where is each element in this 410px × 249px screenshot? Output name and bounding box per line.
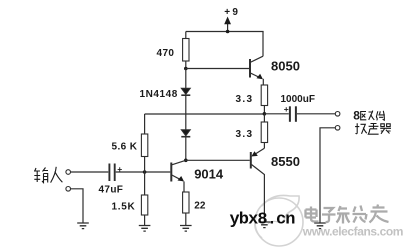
- transistor Q2 9014 (NPN): [171, 160, 186, 192]
- input terminal top: [66, 170, 71, 175]
- wire: node A to Q1 base: [186, 68, 250, 70]
- svg-text:8: 8: [353, 108, 360, 122]
- label 8欧姆 (8 ohm): [353, 108, 385, 122]
- output terminal bottom: [335, 126, 340, 131]
- transistor Q1 8050 (NPN): [250, 32, 263, 86]
- ground under Q3 collector: [259, 222, 271, 228]
- diode D2: [181, 130, 190, 161]
- svg-text:3.3: 3.3: [236, 129, 254, 140]
- ground under R3: [139, 226, 151, 232]
- node B: D2 / Q2 collector / Q3 base: [184, 159, 188, 163]
- resistor R4 3.3 (upper): [261, 85, 267, 114]
- label 扬声器 (speaker): [355, 123, 391, 134]
- svg-text:1000uF: 1000uF: [281, 94, 315, 105]
- svg-text:22: 22: [194, 200, 206, 211]
- svg-text:1.5K: 1.5K: [112, 201, 136, 212]
- wire: input bottom to ground: [71, 189, 84, 223]
- svg-text:47uF: 47uF: [99, 185, 124, 196]
- logo 电子发烧友 (grey calligraphy): [306, 205, 389, 224]
- capacitor C2 1000uF: [264, 106, 335, 122]
- capacitor C1 47uF: [109, 164, 170, 182]
- +9V supply arrow: [224, 17, 231, 32]
- diode D1 1N4148: [181, 69, 190, 96]
- transistor Q3 8550 (PNP): [251, 148, 265, 222]
- resistor R5 22: [183, 192, 189, 226]
- resistor R3 1.5K: [141, 172, 147, 226]
- node: supply junction on rail: [226, 30, 230, 34]
- wire: +9V top rail: [186, 31, 264, 33]
- svg-text:+ 9: + 9: [224, 7, 238, 18]
- wire: output bottom to ground: [320, 128, 335, 223]
- svg-text:+: +: [117, 164, 122, 174]
- wire: node B to Q3 base: [186, 159, 250, 161]
- svg-text:www.elecfans.com: www.elecfans.com: [302, 225, 403, 239]
- resistor R6 3.3 (lower): [261, 114, 267, 148]
- label 输入 (input): [34, 167, 62, 183]
- svg-text:5.6 K: 5.6 K: [112, 141, 138, 152]
- svg-text:8050: 8050: [271, 59, 300, 74]
- svg-text:+: +: [284, 104, 289, 114]
- node A: R1 / Q1 base / D1: [184, 67, 188, 71]
- wire: feedback R2 top to node D: [145, 113, 265, 115]
- resistor R2 5.6K: [141, 114, 147, 172]
- output terminal top: [335, 112, 340, 117]
- input terminal bottom: [66, 187, 71, 192]
- ground at input: [77, 223, 89, 229]
- svg-text:ybx8.cn: ybx8.cn: [230, 211, 296, 230]
- svg-text:1N4148: 1N4148: [140, 89, 178, 100]
- svg-text:9014: 9014: [194, 167, 224, 182]
- svg-text:3.3: 3.3: [236, 94, 254, 105]
- ground under R5: [180, 226, 192, 232]
- wire: D1 to D2: [185, 95, 187, 130]
- node D: R4 / R6 / C2 / feedback: [263, 112, 267, 116]
- svg-text:470: 470: [157, 48, 175, 59]
- ground at output return: [314, 223, 326, 229]
- svg-text:8550: 8550: [271, 154, 300, 169]
- resistor R1 470: [183, 32, 189, 69]
- node C: C1 / R2 / R3 / Q2 base: [143, 170, 147, 174]
- watermark logo circle (light grey): [255, 195, 303, 246]
- wire: input top to C1: [71, 171, 109, 173]
